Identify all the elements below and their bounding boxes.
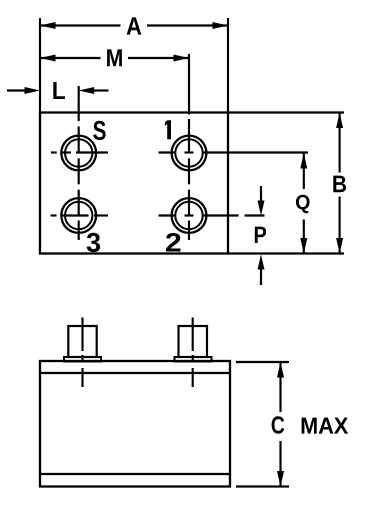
extension line top right (for B, y=112.5) (228, 111, 344, 113)
dimension P down arrow (258, 186, 265, 216)
side view bottom band line (40, 473, 230, 475)
centerline row 2 (through holes 3 and 2, extends right to P arrow) (51, 214, 265, 216)
extension line bottom right (for B/Q, y=253.5) (228, 252, 344, 254)
left pin centerline (81, 318, 83, 388)
right pin body (179, 326, 208, 357)
extension line left (x=40 above body, for A/M/L) (39, 18, 41, 113)
dimension A line (40, 22, 228, 29)
side view lid line (40, 372, 230, 374)
dimension L arrows (outside) (7, 87, 109, 94)
hole 2 outer circle (172, 198, 207, 233)
label P (255, 227, 266, 243)
extension line side view top (for C) (236, 361, 289, 363)
label 1 (165, 120, 171, 139)
side view body outline (40, 361, 230, 487)
dimension Q line (300, 153, 307, 254)
centerline column left (L extension and holes S,3 vertical) (78, 86, 80, 240)
label C (272, 416, 285, 433)
dimension M line (40, 55, 189, 62)
extension line side view bottom (for C) (236, 485, 289, 487)
top view body outline (40, 113, 228, 254)
extension line right (x=228 above body, for A) (227, 18, 229, 113)
label Q (296, 195, 310, 214)
left pin body (68, 326, 96, 357)
hole 3 outer circle (61, 198, 96, 233)
label MAX (302, 418, 349, 434)
hole 3 inner circle (65, 202, 92, 229)
centerline column right (M extension and holes 1,2 vertical) (188, 54, 190, 240)
label L (53, 82, 65, 99)
dimension P up arrow (below body) (258, 255, 265, 286)
hole S inner circle (65, 139, 92, 166)
right pin centerline (192, 318, 194, 388)
hole 2 inner circle (175, 202, 202, 229)
hole 1 outer circle (172, 136, 207, 171)
label S (93, 121, 105, 140)
label B (333, 176, 346, 193)
label 2 (166, 233, 181, 252)
right pin base flange (175, 357, 212, 362)
dimension C line (277, 362, 284, 487)
label A (127, 17, 142, 34)
dimension B line (336, 113, 343, 254)
label M (107, 49, 122, 66)
hole S outer circle (61, 136, 96, 171)
label 3 (87, 233, 100, 252)
centerline row 1 (through holes S and 1, extends right as Q extension) (51, 151, 308, 153)
left pin base flange (64, 357, 101, 362)
hole 1 inner circle (175, 139, 202, 166)
